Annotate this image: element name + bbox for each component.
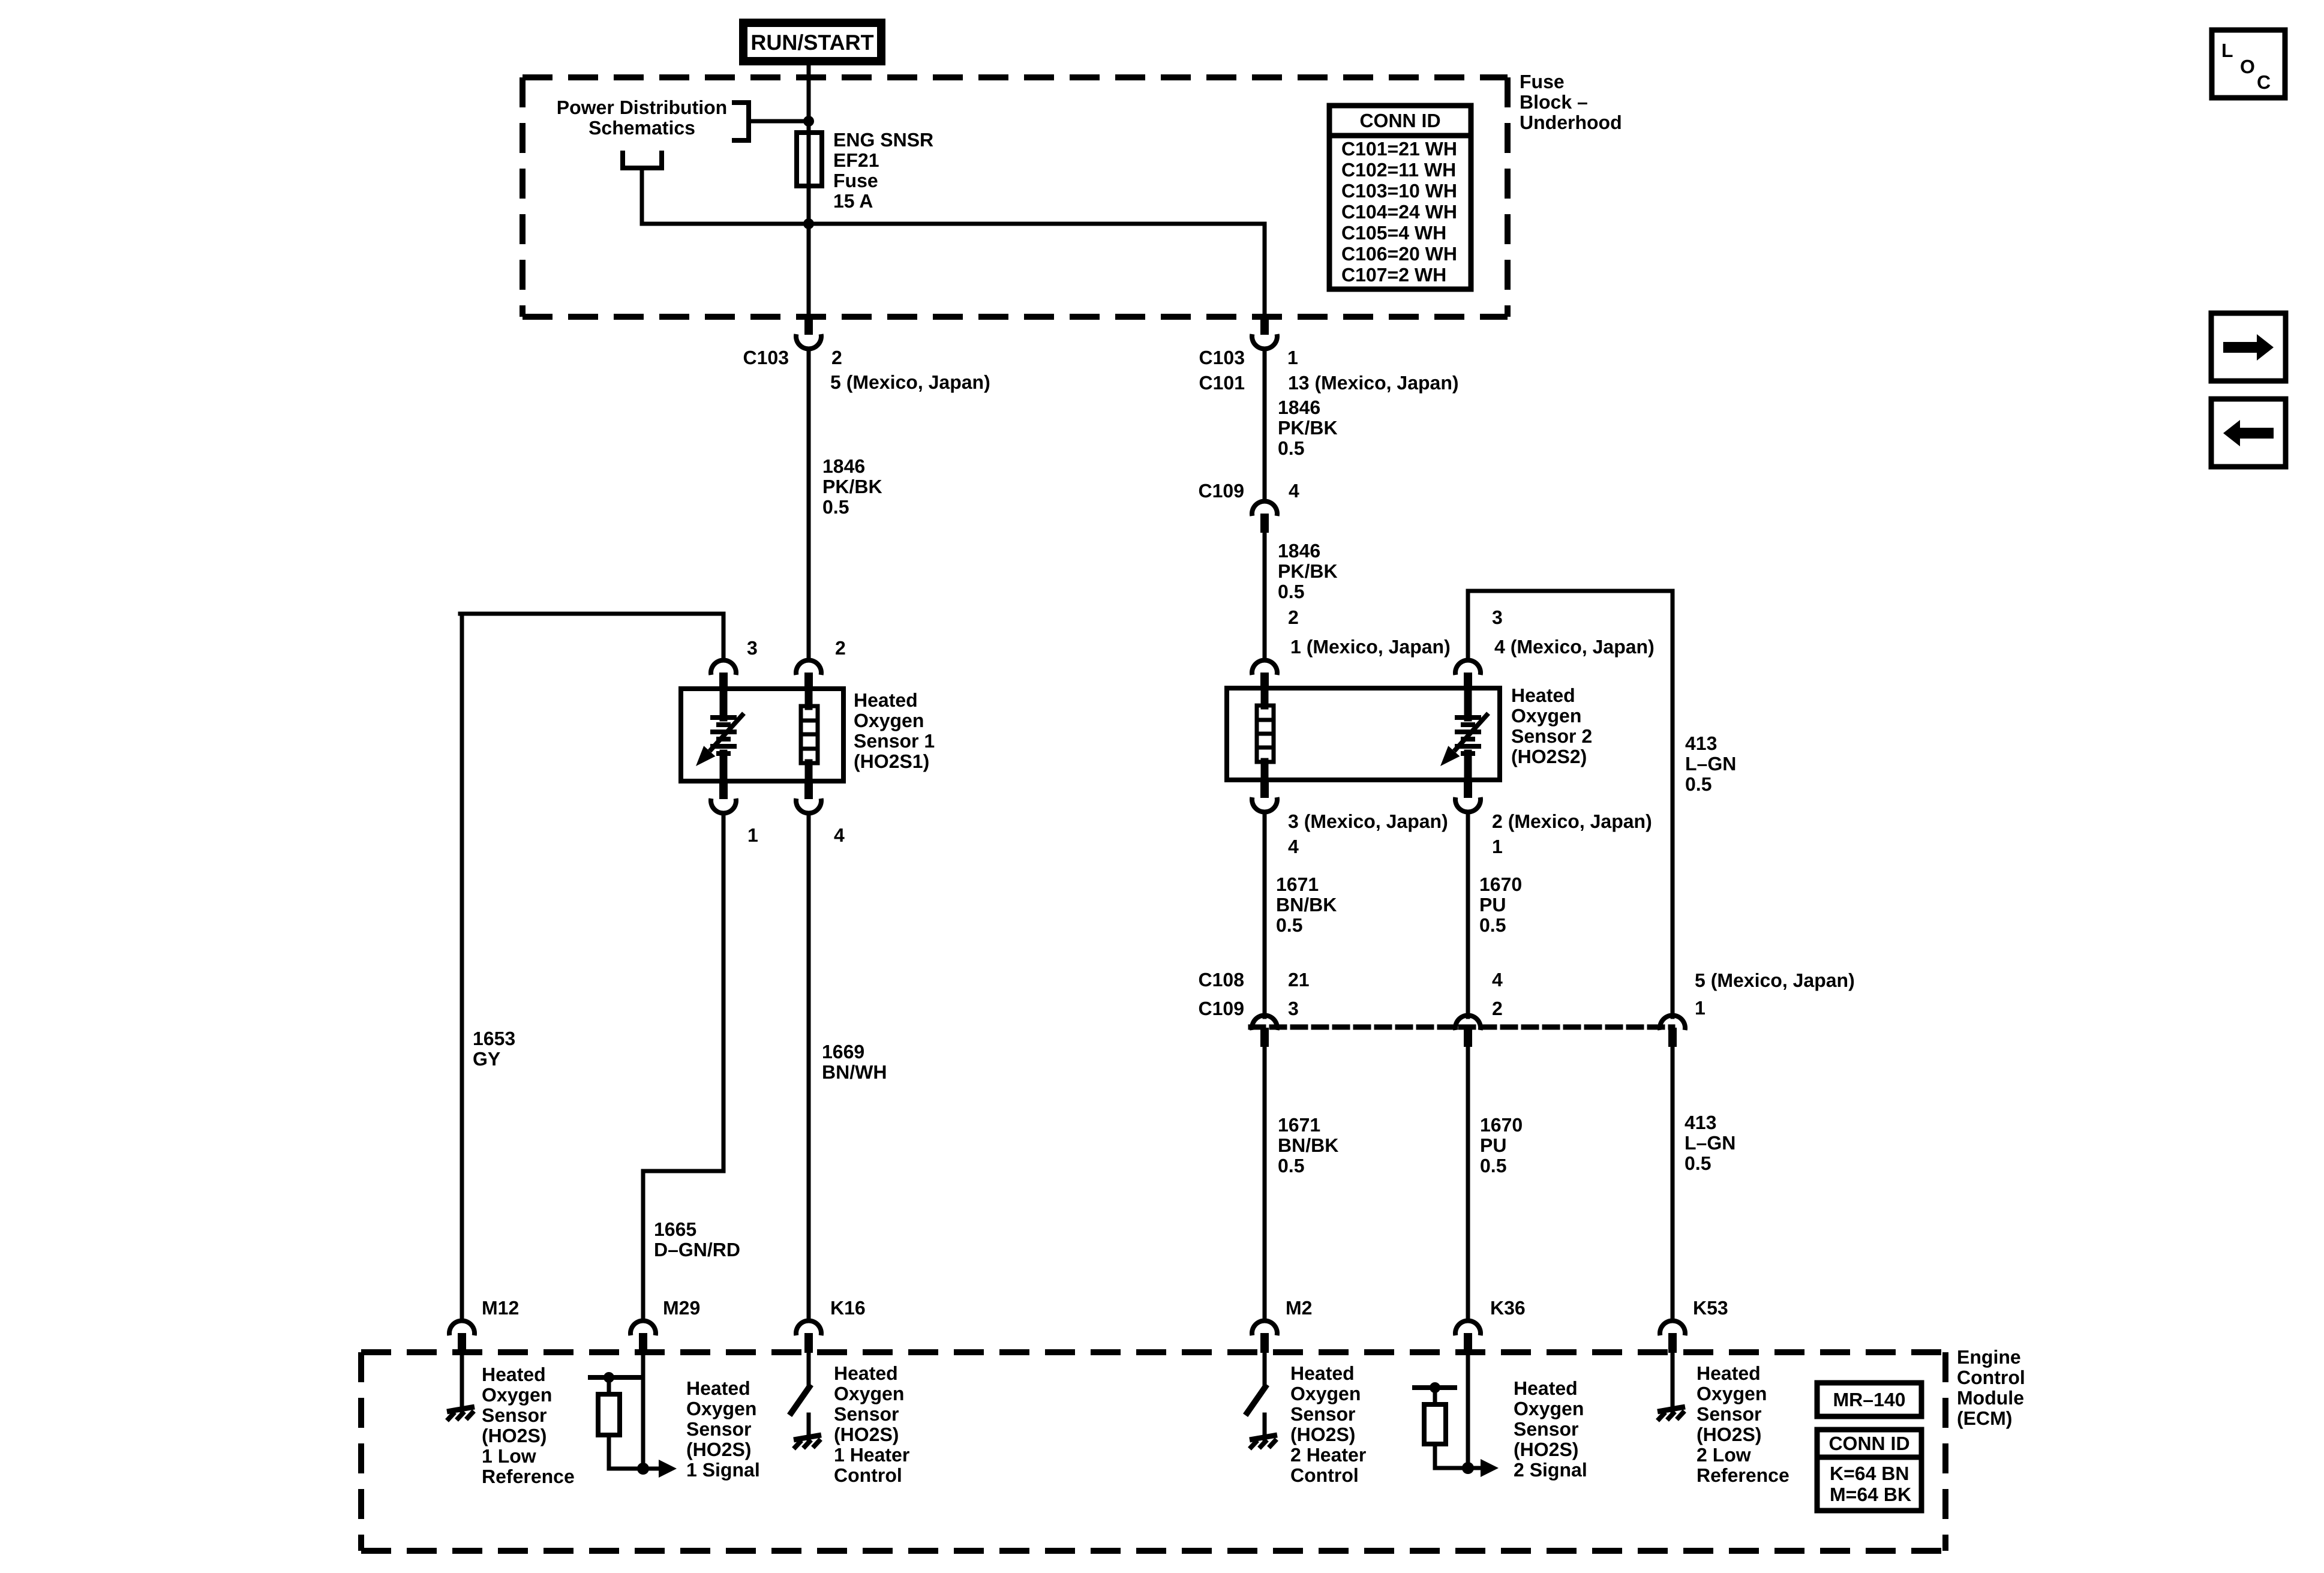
svg-text:Heated: Heated	[1697, 1362, 1761, 1384]
svg-text:1 Signal: 1 Signal	[686, 1459, 760, 1481]
CONN ID table header divider	[1329, 133, 1471, 139]
wire left branch down to C103 pin 2	[807, 224, 811, 317]
svg-text:Sensor 1: Sensor 1	[854, 730, 935, 752]
connector C103 pin 1 cup	[1252, 334, 1277, 349]
svg-text:4: 4	[834, 824, 845, 846]
ECM connector K53 cap	[1660, 1320, 1685, 1335]
svg-text:0.5: 0.5	[1276, 914, 1302, 936]
svg-text:L–GN: L–GN	[1685, 1132, 1736, 1154]
ECM connector K36 cap	[1455, 1320, 1481, 1335]
ground HO2S1 heater control	[794, 1435, 821, 1449]
ground HO2S1 low reference	[447, 1407, 475, 1421]
wire 1669 BN/WH HO2S1 pin4 to ECM K16	[807, 814, 811, 1319]
resistor R1 (HO2S1 signal pull)	[598, 1394, 620, 1435]
internal rail bar (HO2S1 signal)	[590, 1375, 639, 1380]
wire M12 to ground (1 Low Reference)	[460, 1353, 464, 1412]
ECM connector K36 terminal	[1464, 1333, 1472, 1353]
svg-text:C104=24 WH: C104=24 WH	[1341, 201, 1457, 223]
wire 1665 D-GN/RD HO2S1 pin1 to ECM M29 (jog)	[643, 814, 723, 1319]
fuse block - underhood dashed box	[523, 77, 1508, 317]
svg-text:3: 3	[1288, 998, 1299, 1019]
HO2S1 heater element	[801, 706, 818, 763]
wire 1653 GY down to ECM M12	[460, 614, 464, 1319]
ECM connector K53 terminal	[1668, 1333, 1677, 1353]
svg-text:C101=21 WH: C101=21 WH	[1341, 138, 1457, 160]
svg-text:5 (Mexico, Japan): 5 (Mexico, Japan)	[1695, 969, 1855, 991]
ECM connector M12 cap	[449, 1320, 475, 1335]
connector cap C108/C109 left	[1252, 1015, 1277, 1030]
svg-text:2: 2	[835, 637, 846, 659]
svg-text:2 Signal: 2 Signal	[1514, 1459, 1587, 1481]
arrow HO2S1 signal	[659, 1460, 677, 1478]
wire rail to resistor 1	[607, 1377, 611, 1394]
svg-text:Control: Control	[1957, 1367, 2025, 1388]
svg-text:21: 21	[1288, 969, 1310, 990]
svg-text:0.5: 0.5	[1685, 773, 1712, 795]
svg-text:C109: C109	[1199, 480, 1245, 502]
arrow-left icon box	[2211, 399, 2286, 467]
svg-text:1 (Mexico, Japan): 1 (Mexico, Japan)	[1290, 636, 1451, 658]
fuse element wire	[807, 135, 811, 184]
svg-text:Oxygen: Oxygen	[1514, 1398, 1584, 1419]
C108/C109 inline connector dashed line	[1251, 1025, 1673, 1030]
svg-text:GY: GY	[473, 1048, 500, 1070]
ECM connector M29 cap	[630, 1320, 656, 1335]
connector cap C108/C109 middle	[1455, 1015, 1481, 1030]
wire 1670 PU to C108/C109 row	[1466, 813, 1470, 1017]
svg-text:PK/BK: PK/BK	[1278, 560, 1338, 582]
HO2S1 pin 2 connector cap	[796, 660, 821, 675]
svg-text:Oxygen: Oxygen	[1511, 705, 1581, 727]
junction rail/resistor 2	[1430, 1382, 1440, 1393]
svg-text:(HO2S): (HO2S)	[1290, 1424, 1355, 1445]
svg-text:Heated: Heated	[1514, 1377, 1578, 1399]
HO2S2 sensing element top lead	[1464, 688, 1472, 718]
svg-text:(HO2S2): (HO2S2)	[1511, 746, 1587, 767]
svg-text:Oxygen: Oxygen	[1290, 1383, 1361, 1404]
svg-text:C102=11 WH: C102=11 WH	[1341, 159, 1456, 181]
ECM CONN ID box	[1817, 1430, 1921, 1511]
svg-text:2 (Mexico, Japan): 2 (Mexico, Japan)	[1492, 810, 1652, 832]
connector C109 pin terminal	[1260, 514, 1269, 533]
wire 413 L-GN down to C108/C109 row	[1671, 591, 1675, 1017]
ECM CONN ID divider	[1817, 1455, 1921, 1460]
svg-text:(HO2S): (HO2S)	[1697, 1424, 1761, 1445]
svg-text:BN/BK: BN/BK	[1278, 1134, 1338, 1156]
junction K36 signal	[1462, 1462, 1474, 1474]
svg-text:Block –: Block –	[1520, 91, 1588, 113]
switch Q1 HO2S1 heater control driver	[791, 1387, 809, 1413]
svg-text:Heated: Heated	[1511, 685, 1575, 706]
svg-text:1846: 1846	[1278, 540, 1320, 562]
HO2S2 heater element	[1257, 706, 1274, 762]
svg-text:2: 2	[1288, 607, 1299, 628]
svg-text:Schematics: Schematics	[588, 117, 695, 139]
svg-text:C109: C109	[1199, 998, 1245, 1019]
svg-text:EF21: EF21	[833, 149, 879, 171]
svg-text:1846: 1846	[822, 455, 865, 477]
HO2S1 sensing element top lead	[720, 689, 728, 718]
svg-text:Fuse: Fuse	[833, 170, 878, 191]
HO2S1 heater top lead	[805, 689, 813, 706]
wire 1846 PK/BK from C109 to HO2S2 pin 2	[1263, 533, 1267, 659]
svg-text:RUN/START: RUN/START	[750, 30, 873, 55]
svg-text:C101: C101	[1199, 372, 1245, 394]
svg-text:Reference: Reference	[1697, 1464, 1789, 1486]
RUN/START ignition feed box	[743, 23, 881, 61]
svg-text:C: C	[2257, 71, 2271, 93]
svg-text:C103: C103	[743, 347, 789, 368]
connector terminal C108/C109 left	[1260, 1028, 1269, 1047]
wire 1846 PK/BK from C103-2 to HO2S1 pin 2	[807, 350, 811, 659]
svg-text:4: 4	[1492, 969, 1503, 990]
ground HO2S2 low reference	[1658, 1407, 1685, 1421]
svg-text:2: 2	[831, 347, 842, 368]
svg-text:1: 1	[1287, 347, 1298, 368]
junction fuse output	[803, 218, 814, 229]
wire switch 1 to ground	[807, 1415, 811, 1440]
wire 413 L-GN to ECM K53	[1671, 1047, 1675, 1319]
svg-text:4: 4	[1289, 480, 1299, 502]
svg-text:Control: Control	[834, 1464, 902, 1486]
svg-text:M=64 BK: M=64 BK	[1830, 1484, 1911, 1505]
ECM connector M2 cap	[1252, 1320, 1277, 1335]
arrow left glyph	[2223, 420, 2274, 446]
HO2S2 sensor box	[1227, 688, 1500, 780]
svg-text:C103=10 WH: C103=10 WH	[1341, 180, 1457, 202]
svg-text:1670: 1670	[1479, 873, 1522, 895]
svg-text:Heated: Heated	[1290, 1362, 1355, 1384]
svg-text:Sensor 2: Sensor 2	[1511, 725, 1592, 747]
svg-text:15 A: 15 A	[833, 190, 873, 212]
svg-text:O: O	[2240, 56, 2255, 77]
HO2S2 heater bottom lead	[1261, 762, 1269, 780]
svg-text:(ECM): (ECM)	[1957, 1407, 2012, 1429]
svg-text:K36: K36	[1490, 1297, 1526, 1319]
ground HO2S2 heater control	[1250, 1435, 1277, 1449]
svg-text:L–GN: L–GN	[1685, 753, 1736, 775]
svg-text:3: 3	[747, 637, 758, 659]
svg-text:Sensor: Sensor	[686, 1418, 751, 1440]
bracket right of Power Distribution note	[732, 103, 749, 140]
svg-text:Control: Control	[1290, 1464, 1359, 1486]
svg-text:D–GN/RD: D–GN/RD	[654, 1239, 740, 1260]
wire into HO2S2 pin 3	[1466, 591, 1470, 659]
wire rail to resistor 2	[1433, 1388, 1437, 1404]
wire M29 to signal node	[641, 1353, 645, 1469]
svg-text:0.5: 0.5	[1479, 914, 1506, 936]
wire RUN/START feed down into fuse block	[807, 65, 811, 123]
svg-text:PU: PU	[1480, 1134, 1506, 1156]
connector terminal C108/C109 right	[1668, 1028, 1677, 1047]
svg-text:Sensor: Sensor	[1514, 1418, 1578, 1440]
wire HO2S2 pin 3 to 413 branch	[1468, 589, 1673, 593]
HO2S1 pin 3 terminal	[719, 673, 728, 691]
wire 1671 BN/BK to ECM M2	[1263, 1047, 1267, 1319]
wire 1846 PK/BK from C103-1 to C109	[1263, 350, 1267, 500]
junction M29 signal	[637, 1463, 649, 1475]
HO2S2 pin 3 terminal	[1464, 673, 1472, 691]
svg-text:0.5: 0.5	[1278, 581, 1304, 602]
connector C109 cap	[1252, 501, 1277, 516]
svg-text:0.5: 0.5	[1278, 1155, 1304, 1176]
wire bracket to feed junction	[749, 119, 806, 124]
svg-text:2: 2	[1492, 998, 1503, 1019]
HO2S1 sensing element bottom lead	[720, 754, 728, 781]
svg-text:5 (Mexico, Japan): 5 (Mexico, Japan)	[830, 371, 990, 393]
svg-text:PK/BK: PK/BK	[822, 476, 882, 497]
wire right branch down to C103 pin 1	[1263, 224, 1267, 317]
svg-text:(HO2S): (HO2S)	[1514, 1439, 1578, 1460]
HO2S1 sensor box	[681, 689, 843, 781]
switch Q2 HO2S2 heater control driver	[1247, 1387, 1265, 1413]
svg-text:(HO2S): (HO2S)	[834, 1424, 899, 1445]
wire K36 to signal node	[1466, 1353, 1470, 1468]
svg-text:CONN ID: CONN ID	[1359, 110, 1440, 131]
svg-text:2 Low: 2 Low	[1697, 1444, 1751, 1466]
svg-text:M29: M29	[663, 1297, 700, 1319]
wire M2 to heater control switch 2	[1263, 1353, 1267, 1384]
svg-text:1: 1	[747, 824, 758, 846]
svg-text:Heated: Heated	[854, 689, 918, 711]
svg-text:0.5: 0.5	[1278, 437, 1304, 459]
svg-text:1653: 1653	[473, 1028, 515, 1049]
HO2S2 pin 1 terminal	[1464, 779, 1472, 798]
wire HO2S1 pin 3 to low reference branch	[460, 612, 723, 616]
svg-text:Oxygen: Oxygen	[834, 1383, 904, 1404]
svg-text:Oxygen: Oxygen	[1697, 1383, 1767, 1404]
wire fuse output to right branch	[809, 222, 1265, 226]
svg-text:CONN ID: CONN ID	[1828, 1433, 1909, 1454]
svg-text:BN/WH: BN/WH	[822, 1061, 887, 1083]
wire through fuse	[807, 121, 811, 224]
HO2S2 sensing element (variable cell with arrow)	[1440, 713, 1488, 766]
svg-text:413: 413	[1685, 1112, 1716, 1133]
svg-text:Heated: Heated	[482, 1364, 546, 1385]
ECM connector M2 terminal	[1260, 1333, 1269, 1353]
HO2S1 pin 3 connector cap	[711, 660, 736, 675]
svg-text:M12: M12	[482, 1297, 519, 1319]
svg-text:413: 413	[1685, 733, 1717, 754]
svg-text:13 (Mexico, Japan): 13 (Mexico, Japan)	[1288, 372, 1459, 394]
svg-text:PK/BK: PK/BK	[1278, 417, 1338, 439]
ECM connector K16 terminal	[804, 1333, 813, 1353]
HO2S2 pin 4 cup	[1252, 797, 1277, 812]
wire K16 to heater control switch 1	[807, 1353, 811, 1384]
svg-text:M2: M2	[1286, 1297, 1312, 1319]
ECM connector K16 cap	[796, 1320, 821, 1335]
svg-text:4 (Mexico, Japan): 4 (Mexico, Japan)	[1494, 636, 1655, 658]
HO2S2 pin 2 connector cap	[1252, 660, 1277, 675]
fuse body	[797, 133, 822, 186]
svg-text:BN/BK: BN/BK	[1276, 894, 1337, 915]
svg-text:K=64 BN: K=64 BN	[1830, 1463, 1909, 1484]
wire lower bracket to fuse output junction	[642, 222, 809, 226]
svg-text:3 (Mexico, Japan): 3 (Mexico, Japan)	[1288, 810, 1448, 832]
arrow right glyph	[2223, 334, 2274, 361]
HO2S2 pin 3 connector cap	[1455, 660, 1481, 675]
svg-text:1 Heater: 1 Heater	[834, 1444, 909, 1466]
svg-text:1665: 1665	[654, 1218, 696, 1240]
svg-text:PU: PU	[1479, 894, 1506, 915]
junction feed/bracket	[803, 116, 814, 127]
resistor R2 (HO2S2 signal pull)	[1424, 1404, 1446, 1444]
bracket below Power Distribution note	[623, 151, 662, 168]
svg-text:Oxygen: Oxygen	[686, 1398, 756, 1419]
svg-text:Module: Module	[1957, 1387, 2024, 1409]
HO2S1 heater bottom lead	[805, 763, 813, 781]
svg-text:4: 4	[1288, 836, 1299, 857]
svg-text:C103: C103	[1199, 347, 1245, 368]
svg-text:Power Distribution: Power Distribution	[557, 97, 727, 118]
wire from lower bracket down	[640, 168, 644, 224]
svg-text:Underhood: Underhood	[1520, 112, 1622, 133]
svg-text:Sensor: Sensor	[834, 1403, 899, 1425]
HO2S1 pin 2 terminal	[804, 673, 813, 691]
svg-text:1: 1	[1492, 836, 1503, 857]
wire resistor R2 to signal arrow	[1435, 1444, 1481, 1468]
svg-text:Heated: Heated	[834, 1362, 898, 1384]
svg-text:1669: 1669	[822, 1041, 864, 1062]
svg-text:2 Heater: 2 Heater	[1290, 1444, 1366, 1466]
svg-text:L: L	[2221, 40, 2233, 61]
svg-text:Reference: Reference	[482, 1466, 575, 1487]
svg-text:1671: 1671	[1276, 873, 1319, 895]
wire 1670 PU to ECM K36	[1466, 1047, 1470, 1319]
LOC page icon box	[2212, 30, 2285, 98]
internal rail bar (HO2S2 signal)	[1415, 1385, 1455, 1390]
connector cap C108/C109 right	[1660, 1015, 1685, 1030]
svg-text:C107=2 WH: C107=2 WH	[1341, 264, 1446, 286]
HO2S1 pin 4 cup	[796, 798, 821, 813]
HO2S2 heater top lead	[1261, 688, 1269, 706]
svg-text:(HO2S): (HO2S)	[686, 1439, 751, 1460]
svg-text:0.5: 0.5	[1685, 1152, 1711, 1174]
wire K53 to ground (2 Low Reference)	[1671, 1353, 1675, 1412]
svg-text:ENG SNSR: ENG SNSR	[833, 129, 933, 151]
Engine Control Module dashed box	[361, 1352, 1945, 1551]
connector C103 pin 1 terminal	[1260, 316, 1269, 335]
svg-text:1: 1	[1695, 997, 1706, 1019]
wire into HO2S1 pin 3	[722, 614, 726, 659]
svg-text:1 Low: 1 Low	[482, 1445, 536, 1467]
svg-text:C106=20 WH: C106=20 WH	[1341, 243, 1457, 265]
HO2S1 sensing element (variable cell with arrow)	[696, 713, 744, 766]
svg-text:1670: 1670	[1480, 1114, 1523, 1136]
svg-text:K53: K53	[1693, 1297, 1728, 1319]
wire 1671 BN/BK to C108/C109 row	[1263, 813, 1267, 1017]
svg-text:Sensor: Sensor	[482, 1404, 547, 1426]
svg-text:Fuse: Fuse	[1520, 71, 1565, 92]
svg-text:1846: 1846	[1278, 397, 1320, 418]
HO2S2 sensing element bottom lead	[1464, 754, 1472, 780]
HO2S2 pin 1 cup	[1455, 797, 1481, 812]
HO2S1 pin 4 terminal	[804, 781, 813, 799]
svg-text:Oxygen: Oxygen	[482, 1384, 552, 1406]
svg-text:(HO2S1): (HO2S1)	[854, 751, 929, 772]
svg-text:1671: 1671	[1278, 1114, 1320, 1136]
HO2S1 pin 1 terminal	[719, 781, 728, 799]
svg-text:0.5: 0.5	[822, 496, 849, 518]
MR-140 reference box	[1817, 1383, 1921, 1416]
svg-text:MR–140: MR–140	[1833, 1389, 1906, 1410]
junction rail/resistor 1	[603, 1372, 614, 1383]
CONN ID table box	[1329, 106, 1471, 289]
svg-text:K16: K16	[830, 1297, 866, 1319]
svg-text:3: 3	[1492, 607, 1503, 628]
svg-text:Oxygen: Oxygen	[854, 710, 924, 731]
ECM connector M12 terminal	[458, 1333, 466, 1353]
wire switch 2 to ground	[1263, 1415, 1267, 1440]
arrow-right icon box	[2211, 313, 2286, 381]
svg-text:Sensor: Sensor	[1697, 1403, 1761, 1425]
svg-text:Engine: Engine	[1957, 1346, 2021, 1368]
svg-text:C108: C108	[1199, 969, 1245, 990]
HO2S2 pin 2 terminal	[1260, 673, 1269, 691]
HO2S2 pin 4 terminal	[1260, 779, 1269, 798]
svg-text:(HO2S): (HO2S)	[482, 1425, 547, 1446]
arrow HO2S2 signal	[1481, 1459, 1499, 1477]
connector C103 pin 2 cup	[796, 334, 821, 349]
HO2S1 pin 1 cup	[711, 798, 736, 813]
wire resistor R1 to signal arrow	[609, 1435, 659, 1469]
svg-text:C105=4 WH: C105=4 WH	[1341, 222, 1446, 244]
svg-text:0.5: 0.5	[1480, 1155, 1506, 1176]
svg-text:Heated: Heated	[686, 1377, 750, 1399]
svg-text:Sensor: Sensor	[1290, 1403, 1355, 1425]
connector C103 pin 2 terminal	[804, 316, 813, 335]
connector terminal C108/C109 middle	[1464, 1028, 1472, 1047]
ECM connector M29 terminal	[639, 1333, 647, 1353]
